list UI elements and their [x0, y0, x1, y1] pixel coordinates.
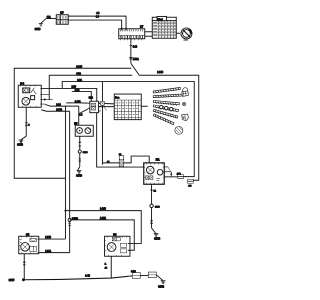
relay N1 circle 1 [146, 166, 154, 174]
ground 31/4B top-left [39, 24, 43, 26]
ground diagonal 31/4G [152, 228, 156, 233]
ground dot 31/4F [22, 278, 25, 281]
relay 17 inner text [121, 30, 143, 32]
wire 1-14B run right [65, 211, 141, 244]
wire 15A feed [46, 18, 56, 20]
table header divider [152, 20, 176, 22]
connector C141 box 2 divider [148, 274, 156, 276]
motor M5 circle 2 [85, 128, 91, 134]
relay N1 small box b [150, 176, 153, 180]
svg-text:31/4E: 31/4E [158, 287, 164, 289]
svg-text:1-8: 1-8 [79, 114, 83, 116]
wire 2-14 to M5 junction [78, 106, 80, 125]
connector circle C189 [78, 150, 81, 153]
connector C cluster boxes right [188, 179, 194, 183]
ground 31/4E strokes [161, 281, 166, 283]
table 5-16 box top-right [152, 17, 176, 38]
wire M5 ground leg [79, 136, 81, 167]
relay 17 inner cells [119, 35, 145, 39]
connector 80 X [119, 159, 124, 166]
wire 3/2 to vertical [99, 103, 115, 106]
svg-text:31/4D: 31/4D [76, 176, 82, 178]
ticks on vertical B [68, 223, 70, 225]
connector tick 4-14 [130, 45, 133, 47]
inline connector X [100, 101, 104, 105]
motor 8/4 left box [19, 236, 39, 254]
svg-text:C: C [28, 125, 30, 127]
fuse 4/4B boxes [178, 175, 184, 179]
motor 8/4 left circle X [22, 244, 28, 250]
wire drop 49 [48, 75, 50, 99]
diagonal pin mark [168, 167, 171, 171]
table grid verticals [158, 21, 173, 39]
bar 4 end glyph (shield) [182, 114, 189, 121]
relay N1 circle 2 [157, 169, 163, 175]
svg-text:1-14A: 1-14A [45, 250, 51, 253]
diagonal stub [103, 106, 107, 110]
clock symbol outer circle [181, 28, 192, 39]
shield inner mark [183, 115, 185, 119]
relay 17 top pin ticks [122, 27, 126, 30]
motor B4 circle X [23, 99, 28, 104]
ground diagonal 31/4B left [21, 136, 26, 140]
relay N1 inner marks [156, 178, 160, 180]
svg-text:1-4B: 1-4B [85, 275, 90, 277]
table grid horizontals [152, 24, 176, 36]
clock slash [183, 30, 190, 37]
svg-text:4B: 4B [105, 267, 108, 269]
wire N1 bottom leg [151, 184, 153, 228]
connector circle 24/3B [68, 218, 71, 221]
svg-text:1-: 1- [105, 264, 107, 266]
inline connector on vertical [100, 101, 104, 105]
motor 8/4 left top cells [30, 238, 37, 241]
svg-text:31/4F: 31/4F [9, 280, 15, 282]
diagonal feed to 3/2 [79, 109, 88, 114]
clock base tick [183, 39, 187, 41]
wire N1 to fuse 4/4B [164, 176, 177, 178]
wire 1-14B into 3/2 [66, 102, 88, 104]
svg-text:1A: 1A [153, 189, 156, 192]
wire relay 17 down leg [130, 39, 132, 64]
wire 4-9A right run W1 [139, 75, 199, 180]
svg-text:C188: C188 [155, 206, 161, 208]
motor B4 circle [22, 97, 30, 105]
svg-text:1-14B: 1-14B [100, 209, 106, 211]
long vertical wire x102 [101, 82, 103, 165]
ground 31/4D strokes [77, 171, 82, 173]
wire 4-9A mid [49, 74, 132, 76]
wire table to clock [176, 32, 180, 34]
svg-text:17: 17 [140, 25, 144, 29]
connector 3/2 box [90, 101, 99, 112]
wire 2-14 [45, 104, 79, 106]
motor M5 circle 1 dot [79, 130, 81, 132]
table 5/16 grid verticals [118, 100, 139, 120]
svg-text:C189: C189 [83, 152, 89, 154]
circles on bar 4 [160, 105, 163, 108]
svg-text:1-14B: 1-14B [75, 101, 81, 103]
wire B4 ground leg [25, 107, 27, 136]
wire left box ground leg [23, 254, 25, 280]
clock symbol inner circle [183, 30, 191, 38]
motor 8/4 mid top cells [112, 237, 120, 240]
wire between connectors [140, 274, 148, 276]
clock ring dark arc [188, 29, 191, 34]
wire 2-14A [41, 110, 69, 112]
svg-text:15: 15 [60, 10, 64, 14]
svg-text:2-14D: 2-14D [76, 66, 82, 68]
wire 80 to N1 jog [124, 156, 150, 163]
wire to N1 via connector 80 [102, 162, 119, 164]
motor B4 connector cells [23, 88, 30, 93]
bar 2 end circle [183, 103, 186, 106]
hatched bar 5 [153, 109, 178, 118]
connector 3/2 cells [91, 103, 95, 110]
motor B4 small box [31, 96, 35, 100]
table 5/16 cell blobs [115, 103, 138, 115]
ticks 31 on M5 leg [79, 159, 82, 161]
wire 1-8A [72, 92, 92, 102]
motor 8/4 mid circle X [109, 244, 115, 250]
connector 15 cell text2 [57, 21, 66, 24]
motor M5 circle 2 hatch [86, 128, 90, 133]
table 5/16 grid horizontals [114, 100, 141, 117]
ticks on left ground leg [23, 262, 26, 265]
bottom long ground wire [23, 276, 132, 280]
wire 4-9 lower [68, 20, 121, 29]
relay 17 bottom pin stubs [121, 39, 142, 41]
relay N1 box [144, 163, 165, 184]
motor B4 box [18, 85, 41, 107]
ground 31/4G strokes [154, 234, 159, 236]
table header box [157, 16, 167, 20]
connector C141 box 2 [148, 272, 156, 278]
hatched bar 2 [153, 94, 181, 98]
junction dot right of N1 [170, 173, 172, 175]
motor 8/4 left lower cells [30, 246, 37, 251]
connector 3/2 X marks [91, 103, 95, 110]
motor M5 box [75, 125, 93, 136]
svg-text:31/4G: 31/4G [154, 238, 160, 240]
svg-text:1-14B: 1-14B [45, 237, 51, 239]
motor 8/4 mid circle [107, 243, 116, 252]
motor B4 pin stubs right [41, 95, 53, 104]
wire table out right [141, 105, 148, 107]
wire 1-14B from left box [39, 238, 66, 240]
hatched bar 6 [153, 114, 174, 125]
wire relay to table lower [145, 35, 153, 37]
ground 31/4B strokes [19, 140, 24, 142]
svg-text:2-2A: 2-2A [77, 79, 82, 82]
wire 1-14A from left box [39, 252, 70, 254]
svg-text:4-9: 4-9 [96, 17, 100, 19]
relay 17 box [119, 29, 145, 39]
wire 4-9 upper [68, 16, 126, 29]
svg-text:2-2B: 2-2B [71, 86, 76, 88]
connector C141 box 1 [132, 273, 140, 279]
connector 15 internal divider [56, 15, 68, 25]
motor 8/4 mid pin ticks [128, 243, 130, 250]
ground diagonal 31/4D [78, 167, 80, 171]
relay N1 small box a [146, 176, 149, 180]
svg-text:141B: 141B [131, 271, 136, 273]
wire 1-14A run right [70, 220, 135, 250]
motor 8/4 left circle [21, 243, 30, 252]
connector 3/2 right pins [99, 103, 101, 111]
table left column text blobs [153, 23, 157, 35]
svg-text:2-14A: 2-14A [56, 109, 62, 112]
svg-text:4-9A: 4-9A [76, 72, 81, 75]
hatched bar 3 [153, 100, 179, 105]
bar 1 end glyph (lantern) [182, 91, 189, 97]
hatched bar 1 [153, 87, 180, 93]
table 5/16 box [114, 94, 141, 120]
svg-text:31/4B: 31/4B [17, 144, 23, 146]
tick 1A on N1 leg [150, 189, 153, 191]
svg-text:4-14: 4-14 [133, 46, 138, 48]
motor 8/4 mid right cells [120, 243, 127, 253]
svg-text:N1: N1 [156, 158, 160, 162]
svg-text:1/50A: 1/50A [133, 58, 139, 61]
connector ticks on B4 ground leg [25, 123, 28, 126]
svg-text:2-14D: 2-14D [157, 72, 163, 74]
ground diagonal 31/4E [157, 275, 164, 281]
wire diagonal entry into main line [131, 63, 139, 75]
relay N1 right pin wires [164, 167, 171, 177]
vertical wire B 1-14A [69, 111, 71, 252]
tick 1B on N1 leg [150, 221, 153, 223]
wire 2-2A W2 [62, 82, 194, 177]
motor M5 circle 1 [77, 128, 83, 134]
junction dot wire A [64, 210, 66, 212]
connector 80 cells [119, 159, 124, 163]
wire 2-14D top edge of left box [14, 68, 131, 178]
relay N1 circle 1 X [148, 167, 153, 172]
svg-text:15A: 15A [47, 16, 51, 19]
wire ground diagonal top-left [41, 19, 46, 24]
wire 3/2 bottom to N1 path [97, 113, 144, 167]
svg-text:1-14A: 1-14A [100, 217, 106, 220]
connector 80 box [119, 156, 124, 167]
connector 15 cell text [57, 16, 66, 19]
motor B4 connector X [23, 88, 30, 93]
bar 6 end circle hatched [175, 126, 183, 134]
wire 2-2B [41, 88, 97, 101]
svg-text:4-9: 4-9 [96, 13, 100, 15]
connector circle C188 [150, 204, 153, 207]
wire mid box bottom leg [110, 256, 112, 278]
svg-text:3/2: 3/2 [89, 95, 93, 99]
ticks on M5 leg [79, 142, 82, 146]
vertical wire A 1-14B [64, 106, 66, 239]
motor 8/4 mid box [105, 236, 130, 256]
bar 6 end circle hatch [176, 126, 182, 133]
svg-text:31/4B: 31/4B [35, 29, 41, 31]
wire relay to table upper [145, 31, 153, 33]
motor 8/4 left pin marks [19, 236, 39, 254]
svg-text:C/8: C/8 [188, 186, 192, 188]
junction dot near B4 [44, 99, 46, 101]
hatched bar 4 [153, 105, 178, 112]
connector 15 box [56, 15, 68, 25]
connector tick 150A [129, 57, 132, 59]
svg-text:1-8A: 1-8A [75, 89, 80, 92]
connector 3/2 left pins [88, 103, 90, 108]
motor B4 switch arm [31, 88, 37, 95]
connector C141 box 1 divider [132, 274, 140, 276]
